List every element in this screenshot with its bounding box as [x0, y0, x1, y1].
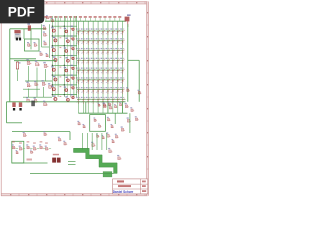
capacitor C13: [27, 42, 31, 46]
driver row wire 5: [52, 64, 77, 66]
matrix row net 3: [77, 50, 123, 52]
regulator IC3: [33, 146, 37, 150]
diode D44: [91, 58, 96, 65]
capacitor C4: [26, 97, 30, 102]
wire: [28, 66, 30, 81]
diode D210: [120, 38, 124, 45]
matrix column net 5: [97, 21, 99, 99]
capacitor C12: [45, 146, 49, 150]
wire: [23, 88, 40, 90]
junction: [64, 74, 65, 75]
diode D89: [115, 97, 120, 104]
resistor R10: [126, 87, 130, 91]
diode D66: [101, 77, 105, 84]
IC U1 outline box: [25, 39, 40, 51]
diode D92: [31, 101, 35, 107]
matrix column net 4: [92, 21, 94, 99]
capacitor C6 (electrolytic): [19, 102, 22, 110]
diode D24: [91, 38, 96, 45]
date row2: [118, 185, 131, 187]
capacitor C11: [39, 144, 43, 148]
diode D83: [86, 97, 91, 104]
net top-left horizontal: [10, 28, 46, 30]
diode D22: [81, 38, 85, 45]
wire: [23, 96, 52, 98]
driver column wire: [57, 16, 59, 97]
capacitor C10: [26, 144, 30, 148]
diode D37: [105, 48, 110, 55]
diode D85: [96, 97, 101, 104]
net VCC vertical: [9, 29, 11, 102]
diode D61: [76, 77, 81, 84]
capacitor C3: [35, 60, 40, 65]
driver row wire 4: [52, 55, 77, 57]
junction: [64, 26, 65, 27]
wire column drop: [82, 102, 84, 113]
transistor Q16: [65, 77, 69, 82]
wire column drop: [107, 102, 109, 113]
diode D100: [12, 144, 16, 148]
diode D56: [101, 68, 105, 75]
wire: [23, 29, 25, 39]
diode D25: [96, 38, 101, 45]
matrix row net 1: [77, 30, 123, 32]
diode D52: [81, 68, 85, 75]
resistor R1: [27, 23, 31, 30]
svg-text:Daniel Schwe: Daniel Schwe: [113, 190, 134, 194]
transistor Q22: [108, 148, 112, 153]
wire column drop: [122, 102, 124, 113]
diode D12: [81, 28, 85, 35]
matrix row net 2: [77, 40, 123, 42]
junction: [52, 74, 53, 75]
wire: [30, 29, 32, 50]
driver column wire: [54, 16, 56, 97]
junction: [52, 55, 53, 56]
diode D76: [101, 87, 105, 94]
diode D90: [34, 81, 38, 86]
diode D59: [115, 68, 120, 75]
sheet cell row3: [142, 190, 146, 192]
resistor R14: [106, 132, 110, 137]
diode D102: [16, 150, 19, 154]
wire: [85, 102, 87, 113]
junction: [52, 84, 53, 85]
resistor R2: [39, 51, 43, 55]
diode D84: [91, 97, 96, 104]
wire: [68, 164, 76, 166]
wire: [7, 122, 23, 124]
frame bottom ruler band: [1, 193, 148, 196]
diode D99: [114, 104, 117, 108]
transformer TR1 outline: [12, 141, 24, 163]
wire: [12, 162, 48, 164]
frame right ruler band: [146, 1, 148, 196]
wire stub: [23, 148, 25, 150]
wire stub: [49, 148, 51, 150]
diode D42: [81, 58, 85, 65]
net right vertical 2: [138, 60, 140, 102]
diode D29: [115, 38, 120, 45]
diode D16: [101, 28, 105, 35]
diode D21: [76, 38, 81, 45]
transistor Q8: [53, 95, 57, 100]
diode D49: [115, 58, 120, 65]
wire: [28, 89, 30, 98]
driver row wire 1: [52, 25, 77, 27]
wire: [36, 68, 38, 98]
matrix column net 1: [77, 21, 79, 99]
diode D35: [96, 48, 101, 55]
transistor Q23: [117, 155, 121, 160]
gate U2A: [93, 117, 97, 121]
wire: [14, 60, 56, 62]
diode D53: [86, 68, 91, 75]
diode D33: [86, 48, 91, 55]
wire: [25, 80, 52, 82]
matrix column net 10: [122, 21, 124, 99]
frame left border: [0, 2, 2, 196]
diode D73: [86, 87, 91, 94]
diode D54: [91, 68, 96, 75]
resistor R21: [51, 18, 55, 22]
capacitor C1: [43, 25, 47, 30]
frame top ruler band: [1, 1, 148, 4]
driver row wire 8: [52, 94, 77, 96]
capacitor C17: [82, 124, 86, 128]
bus stub above title block: [103, 172, 112, 177]
diode D65: [96, 77, 101, 84]
diode D62: [81, 77, 85, 84]
diode D17: [105, 28, 110, 35]
wire: [96, 133, 98, 150]
diode D31: [76, 48, 81, 55]
svg-text:PDF: PDF: [8, 4, 35, 19]
transistor Q5: [51, 66, 55, 71]
junction: [52, 45, 53, 46]
junction: [52, 26, 53, 27]
transistor Q22: [71, 35, 75, 40]
diode D610: [120, 77, 124, 84]
junction: [52, 65, 53, 66]
wire stub: [43, 148, 45, 150]
diode D41: [76, 58, 81, 65]
IC U2 outline: [90, 115, 106, 132]
connector X1: [52, 154, 60, 163]
diode D39: [115, 48, 120, 55]
wire stub: [37, 148, 39, 150]
sheet cell row1: [142, 181, 146, 183]
diode D19: [115, 28, 120, 35]
wire: [69, 132, 71, 140]
diode D58: [110, 68, 115, 75]
wire: [82, 133, 84, 150]
transistor Q21: [91, 142, 95, 147]
wire: [68, 161, 76, 163]
diode D48: [110, 58, 115, 65]
resistor R33: [101, 135, 105, 139]
matrix column net 7: [107, 21, 109, 99]
wire: [128, 59, 139, 61]
transistor Q7: [51, 86, 55, 91]
transistor Q4: [53, 56, 57, 61]
transistor Q30: [48, 83, 53, 88]
diode D310: [120, 48, 124, 55]
diode D47: [105, 58, 110, 65]
diode D91: [41, 80, 46, 85]
PDF badge: [0, 0, 44, 23]
wire column drop: [92, 102, 94, 113]
diode D51: [76, 68, 81, 75]
junction: [64, 65, 65, 66]
transistor Q1: [51, 27, 55, 32]
wire: [91, 133, 93, 150]
resistor R8: [103, 103, 107, 108]
resistor R22: [34, 42, 38, 46]
driver row wire 2: [52, 35, 77, 37]
wire: [6, 102, 8, 123]
matrix column net 2: [82, 21, 84, 99]
matrix row net 4: [77, 59, 123, 61]
capacitor C16: [43, 41, 47, 45]
diode D88: [110, 97, 115, 104]
diode D78: [110, 87, 115, 94]
diode D69: [115, 77, 120, 84]
transistor Q3: [51, 47, 55, 52]
wire column drop: [97, 102, 99, 113]
driver column wire: [75, 16, 77, 97]
diode D55: [96, 68, 101, 75]
gate U2B: [98, 123, 102, 127]
resistor R32: [110, 124, 114, 128]
resistor R3: [16, 61, 20, 71]
junction: [64, 35, 65, 36]
title text row1: [117, 180, 124, 182]
driver row wire 7: [52, 84, 77, 86]
matrix row net 6: [77, 79, 123, 81]
resistor R4: [26, 59, 31, 64]
wire: [42, 46, 50, 48]
wire: [12, 131, 70, 133]
wire: [129, 113, 131, 133]
transistor Q17: [64, 86, 68, 91]
junction: [64, 55, 65, 56]
transistor Q25: [71, 65, 75, 70]
transistor Q2: [53, 37, 57, 42]
crystal Y1: [14, 30, 21, 40]
diode D36: [101, 48, 105, 55]
wire stub: [16, 148, 18, 150]
capacitor C7: [23, 132, 27, 137]
driver column wire: [69, 16, 71, 97]
junction: [64, 94, 65, 95]
diode D79: [115, 87, 120, 94]
diode D94: [108, 102, 112, 106]
transistor Q23: [71, 45, 75, 50]
diode D710: [120, 87, 124, 94]
resistor R31: [107, 117, 111, 121]
value label: [27, 159, 33, 161]
diode D86: [101, 97, 105, 104]
net labels on top bus: [44, 16, 121, 21]
transistor Q28: [71, 94, 75, 99]
transistor Q15: [64, 67, 68, 72]
junction: [52, 94, 53, 95]
transistor Q11: [64, 28, 68, 33]
matrix row net 8: [77, 98, 126, 100]
diode D64: [91, 77, 96, 84]
wire: [41, 24, 43, 47]
resistor R34: [111, 139, 115, 143]
transistor Q40: [125, 14, 131, 27]
resistor R6: [26, 82, 31, 87]
net bottom horizontal: [30, 172, 114, 174]
wire column drop: [117, 102, 119, 113]
net bus top horizontal: [45, 20, 126, 22]
wire: [122, 102, 124, 113]
resistor R36: [77, 121, 81, 125]
bus staircase: [74, 148, 118, 173]
diode D27: [105, 38, 110, 45]
diode D57: [105, 68, 110, 75]
diode D13: [86, 28, 91, 35]
matrix column net 8: [112, 21, 114, 99]
regulator IC4: [43, 101, 48, 106]
transistor Q24: [71, 55, 75, 60]
diode D410: [120, 58, 124, 65]
diode D23: [86, 38, 91, 45]
resistor R35: [96, 134, 99, 138]
diode D77: [105, 87, 110, 94]
transistor Q13: [64, 47, 68, 52]
diode D81: [76, 97, 81, 104]
junction: [52, 35, 53, 36]
transistor Q21: [71, 26, 75, 31]
resistor R11: [138, 90, 142, 94]
capacitor C15: [30, 150, 33, 154]
driver column wire: [73, 16, 75, 97]
diode D87: [105, 97, 110, 104]
matrix column net 3: [87, 21, 89, 99]
resistor R17: [63, 141, 67, 145]
wire: [86, 133, 88, 150]
wire: [45, 69, 47, 81]
diode D34: [91, 48, 96, 55]
transistor Q26: [71, 75, 75, 80]
transistor Q18: [65, 96, 69, 101]
wire column drop: [77, 102, 79, 113]
diode D43: [86, 58, 91, 65]
diode D98: [98, 103, 101, 106]
resistor R16: [58, 137, 62, 141]
diode D18: [110, 28, 115, 35]
diode D67: [105, 77, 110, 84]
resistor R30: [119, 102, 122, 106]
diode D71: [76, 87, 81, 94]
wire: [114, 113, 116, 124]
resistor R5: [43, 62, 48, 67]
wire: [107, 102, 109, 113]
diode D75: [96, 87, 101, 94]
resistor R12: [130, 107, 134, 111]
wire column drop: [112, 102, 114, 113]
diode D11: [76, 28, 81, 35]
wire: [43, 87, 45, 97]
wire column drop: [87, 102, 89, 113]
transistor Q42: [121, 126, 125, 131]
title block frame: [113, 179, 148, 194]
wire: [10, 58, 36, 60]
capacitor C14: [45, 53, 49, 57]
wire: [101, 133, 103, 150]
wire column drop: [102, 102, 104, 113]
transistor Q14: [65, 57, 69, 62]
matrix column net 9: [117, 21, 119, 99]
diode D46: [101, 58, 105, 65]
diode D93: [103, 102, 107, 106]
resistor R9: [109, 105, 113, 109]
diode D45: [96, 58, 101, 65]
diode D74: [91, 87, 96, 94]
matrix column net 6: [102, 21, 104, 99]
capacitor C2: [43, 31, 47, 36]
resistor R15: [115, 134, 119, 138]
diode D68: [110, 77, 115, 84]
resistor R7: [34, 97, 38, 102]
driver column wire: [63, 16, 65, 97]
transistor Q6: [53, 76, 57, 81]
wire: [106, 133, 108, 150]
diode D101: [19, 146, 23, 150]
driver column wire: [51, 16, 53, 97]
driver column wire: [67, 16, 69, 97]
diode D72: [81, 87, 85, 94]
wire stub: [30, 148, 32, 150]
wire: [48, 24, 50, 58]
wire: [79, 112, 128, 114]
net GND long bus: [7, 101, 126, 103]
diode D63: [86, 77, 91, 84]
transistor Q12: [65, 38, 69, 43]
resistor R13: [135, 116, 139, 120]
net right vertical 1: [127, 24, 129, 102]
capacitor C5 (electrolytic): [12, 102, 15, 110]
matrix row net 5: [77, 69, 123, 71]
diode D82: [81, 97, 85, 104]
driver row wire 6: [52, 74, 77, 76]
capacitor C9: [127, 117, 131, 122]
driver row wire 3: [52, 45, 77, 47]
diode D15: [96, 28, 101, 35]
transistor Q27: [71, 84, 75, 89]
wire: [17, 71, 19, 82]
diode D28: [110, 38, 115, 45]
diode D810: [120, 97, 124, 104]
junction: [64, 45, 65, 46]
diode D32: [81, 48, 85, 55]
diode D38: [110, 48, 115, 55]
transistor Q41: [125, 103, 129, 108]
diode D26: [101, 38, 105, 45]
resistor R20: [46, 15, 50, 19]
diode D14: [91, 28, 96, 35]
rev cell row2: [142, 185, 146, 187]
diode D510: [120, 68, 124, 75]
diode D110: [120, 28, 124, 35]
capacitor C8: [43, 131, 47, 135]
matrix row net 7: [77, 89, 123, 91]
junction: [64, 84, 65, 85]
